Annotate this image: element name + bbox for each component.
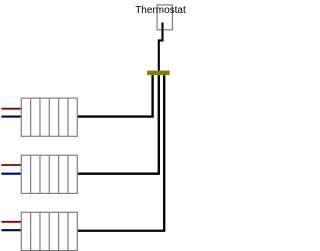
return pipe (blue) radiator R2 [1,173,21,175]
supply pipe (red) radiator R1 [1,108,21,110]
junction bar (distribution node) [147,71,170,76]
return pipe (blue) radiator R3 [1,229,21,231]
supply pipe (red) radiator R2 [1,164,21,166]
wire from thermostat U1 to junction bar [159,23,163,74]
svg-text:Thermostat: Thermostat [135,5,186,16]
wire from junction bar to radiator R2 [77,75,159,174]
wire from junction bar to radiator R3 [77,75,164,231]
radiator R1 [21,98,77,136]
radiator R2 [21,155,77,193]
return pipe (blue) radiator R1 [1,116,21,118]
thermostat U1 box [157,5,172,30]
supply pipe (red) radiator R3 [1,221,21,223]
radiator R3 [21,212,77,250]
wire from junction bar to radiator R1 [77,75,152,116]
